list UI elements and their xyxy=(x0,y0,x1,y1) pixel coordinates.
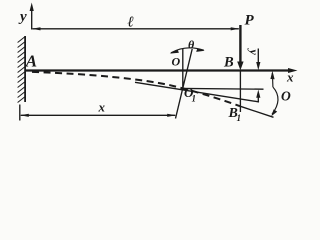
svg-text:B: B xyxy=(223,54,234,70)
wall hatching xyxy=(18,37,25,103)
wall fixed support line xyxy=(24,36,26,102)
rotated section line through O1 xyxy=(176,49,193,119)
tangent line at O1 xyxy=(135,82,259,102)
svg-text:O: O xyxy=(281,89,291,104)
angle arc theta at free end xyxy=(271,73,274,87)
svg-text:y: y xyxy=(18,9,27,25)
force P arrow xyxy=(239,25,241,64)
beam axis (x axis) xyxy=(25,69,291,71)
x dimension extension line left xyxy=(19,105,21,121)
y axis xyxy=(31,8,33,30)
svg-text:A: A xyxy=(25,52,37,71)
x dimension line xyxy=(21,114,175,116)
l dimension line xyxy=(33,28,239,30)
tangent line at B1 xyxy=(240,106,273,117)
deflection y dimension upper arrow xyxy=(257,49,259,64)
deflection y dimension lower arrow xyxy=(257,96,259,102)
angle arc theta at section xyxy=(171,48,204,53)
deflected axis dashed curve A to B1 xyxy=(32,72,240,106)
svg-text:y: y xyxy=(247,48,261,56)
svg-text:x: x xyxy=(286,70,294,85)
vertical line B to B1 xyxy=(239,71,241,112)
svg-text:O: O xyxy=(172,55,181,69)
svg-text:θ: θ xyxy=(188,38,195,52)
svg-text:1: 1 xyxy=(192,94,197,104)
horizontal extension from O1 xyxy=(182,87,264,90)
section line through O (before bending) xyxy=(182,49,184,88)
svg-text:1: 1 xyxy=(237,113,242,123)
svg-text:ℓ: ℓ xyxy=(128,15,134,31)
svg-text:P: P xyxy=(245,13,255,29)
svg-text:x: x xyxy=(98,100,106,115)
